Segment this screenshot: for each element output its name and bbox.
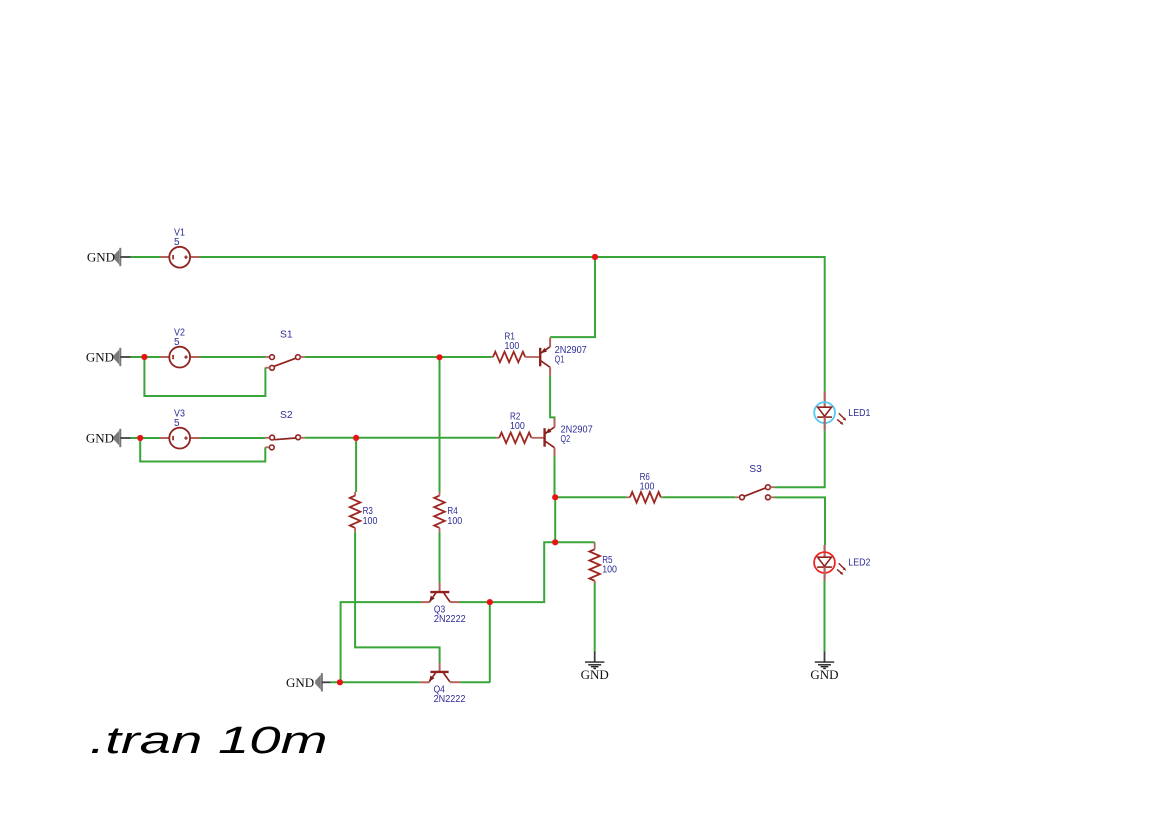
svg-text:Q1: Q1 (555, 355, 565, 366)
wire S3 upper to LED1 bottom (775, 430, 825, 487)
ground flag row1 (114, 248, 131, 266)
junction node V3 left (137, 435, 143, 441)
junction node V2 left (141, 354, 147, 360)
junction node row3 R3 column (353, 435, 359, 441)
wire row2 flag to V2 (131, 356, 161, 358)
wire R3 bottom to Q4 base (355, 532, 440, 663)
svg-text:S3: S3 (749, 464, 762, 475)
wire rail junction down to Q1 emitter (550, 258, 595, 337)
wire bottom GND to Q4 emitter (331, 681, 420, 683)
svg-text:GND: GND (810, 667, 838, 682)
junction node R5 top (552, 539, 558, 545)
wire S3 lower to LED2 top (775, 497, 825, 545)
svg-text:2N2222: 2N2222 (434, 694, 466, 705)
wire row1 left of V1 (131, 256, 161, 258)
wire R5 node to R5 (555, 541, 595, 543)
ground symbol under R5 (585, 652, 604, 669)
wire S1 to R1 (305, 356, 492, 358)
svg-text:GND: GND (86, 350, 114, 365)
svg-text:GND: GND (286, 675, 314, 690)
wire rail down to LED1 (824, 256, 826, 392)
svg-text:LED2: LED2 (848, 558, 870, 569)
svg-text:100: 100 (363, 516, 378, 527)
switch S2 (265, 410, 305, 450)
svg-text:5: 5 (174, 237, 180, 248)
svg-text:GND: GND (87, 250, 115, 265)
svg-text:GND: GND (86, 431, 114, 446)
wire R3 column (355, 438, 357, 492)
junction node top rail (592, 254, 598, 260)
wire row3 flag to V3 (131, 437, 161, 439)
wire Q3 node down to Q4 collector line (489, 602, 491, 682)
voltage source V3 (160, 409, 200, 449)
resistor R6 (626, 472, 662, 503)
voltage source V1 (160, 228, 200, 268)
svg-text:5: 5 (174, 418, 180, 429)
switch S3 (735, 464, 775, 499)
svg-text:LED1: LED1 (848, 408, 870, 419)
ground symbol under LED2 (815, 652, 834, 669)
wire Q2 collector down to node (554, 456, 556, 497)
voltage source V2 (160, 328, 200, 368)
wire Q1 collector to Q2 emitter jog (550, 376, 554, 418)
wire V2 to S1 (200, 356, 266, 358)
svg-text:100: 100 (447, 516, 462, 527)
resistor R1 (492, 331, 540, 362)
transistor Q4 2N2222 NPN (420, 663, 466, 705)
wire R4 bottom to Q3 base (439, 532, 441, 582)
wire node down to R5 node (554, 497, 556, 542)
svg-text:100: 100 (510, 421, 525, 432)
junction node Q3 collector (487, 599, 493, 605)
resistor R2 (496, 411, 543, 443)
svg-text:100: 100 (602, 564, 617, 575)
transistor Q1 2N2907 PNP (539, 338, 587, 376)
wire LED2 bottom to ground (824, 581, 826, 652)
svg-text:S1: S1 (280, 330, 293, 341)
wire Q3 emitter to left column down to GND line (341, 602, 421, 682)
junction node row2 R4 column (436, 354, 442, 360)
svg-text:GND: GND (581, 667, 609, 682)
junction node Q2 collector R6 (552, 494, 558, 500)
svg-text:Q2: Q2 (561, 434, 571, 445)
junction node bottom GND (337, 679, 343, 685)
wire S2 bottom loop (140, 438, 265, 462)
resistor R5 (589, 542, 617, 583)
wire R5 bottom to ground (594, 582, 596, 652)
svg-text:2N2222: 2N2222 (434, 614, 466, 625)
svg-text:S2: S2 (280, 410, 293, 421)
transistor Q3 2N2222 NPN (421, 583, 467, 626)
ground flag bottom left (315, 673, 330, 691)
wire S2 to R2 (305, 437, 497, 439)
wire node to R6 (555, 496, 626, 498)
resistor R4 (434, 492, 462, 532)
wire R6 to S3 (663, 496, 736, 498)
svg-text:5: 5 (174, 337, 180, 348)
resistor R3 (350, 492, 378, 532)
ground flag row2 (114, 348, 131, 366)
switch S1 (265, 330, 305, 371)
wire V3 to S2 (200, 437, 266, 439)
LED1 (814, 392, 871, 431)
wire S1 bottom loop (144, 357, 265, 396)
wire Q4 collector to column (460, 681, 490, 683)
wire R5 node left and down to Q3 collector line (460, 542, 556, 602)
svg-text:.tran 10m: .tran 10m (90, 720, 328, 762)
LED2 (814, 545, 871, 581)
wire R4 column (439, 358, 441, 493)
svg-text:100: 100 (640, 481, 655, 492)
transistor Q2 2N2907 PNP (543, 418, 593, 456)
ground flag row3 (114, 429, 131, 447)
wire V1 top rail (200, 256, 825, 258)
svg-text:100: 100 (505, 341, 520, 352)
